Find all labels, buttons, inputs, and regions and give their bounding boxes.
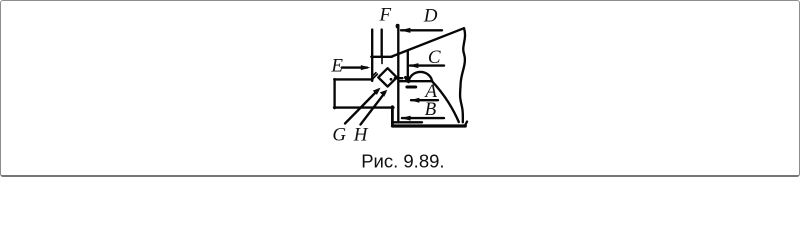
cam flat top (399, 80, 433, 82)
svg-text:F: F (379, 5, 392, 26)
cam slot mark (407, 86, 416, 89)
leader H arrowhead (380, 90, 388, 97)
pivot dot on rod top (396, 24, 399, 29)
arrow E shaft (342, 66, 367, 68)
leader G (345, 90, 378, 124)
wedge top edge (392, 28, 464, 56)
cam base thick line (393, 124, 466, 127)
svg-text:H: H (353, 125, 369, 146)
block top edge (371, 56, 392, 58)
wedge broken right edge (460, 28, 465, 122)
cam slope (432, 81, 459, 122)
follower rod right line (407, 51, 409, 81)
plate top edge (334, 78, 372, 80)
svg-text:B: B (425, 99, 437, 120)
stub below block edge (381, 58, 383, 64)
bearing step line (394, 121, 422, 123)
follower rod main line (397, 25, 399, 121)
cam base right hook (465, 122, 467, 126)
arrow C shaft (410, 64, 444, 66)
svg-text:D: D (423, 5, 438, 26)
arrow A head (410, 98, 420, 103)
svg-text:Рис. 9.89.: Рис. 9.89. (361, 150, 444, 171)
diamond follower block (378, 68, 397, 86)
step vertical edge (391, 107, 394, 126)
svg-text:E: E (330, 56, 343, 77)
plate left edge (333, 79, 335, 108)
svg-text:C: C (428, 47, 441, 68)
corner hatch stroke 1 (372, 74, 378, 80)
cam dome (409, 72, 432, 81)
arrow B shaft (402, 117, 444, 119)
arrow E head (361, 65, 371, 70)
arrow A shaft (411, 99, 438, 101)
plate bottom edge (334, 106, 394, 108)
junction blob (406, 78, 409, 82)
arrow C head (409, 63, 419, 68)
leader G arrowhead (373, 88, 381, 95)
rod bottom tick (395, 77, 403, 79)
svg-text:G: G (332, 125, 346, 146)
corner hatch stroke 2 (372, 73, 376, 77)
arrow B head (401, 116, 411, 121)
rod fork left line (371, 30, 373, 82)
diamond center dot (390, 78, 393, 81)
rod fork right line (381, 30, 383, 57)
arrow D head (400, 28, 410, 33)
leader H (361, 93, 386, 125)
arrow D shaft (401, 29, 442, 31)
